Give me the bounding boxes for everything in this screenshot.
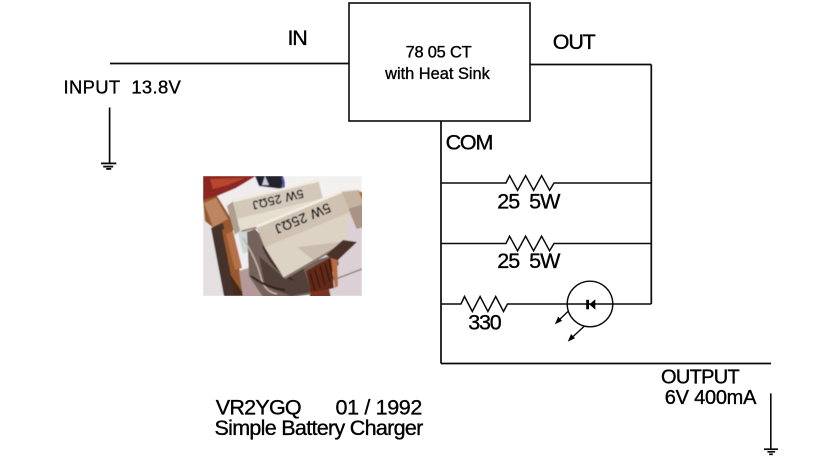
LED D1 triangle [589,299,595,309]
svg-text:with Heat Sink: with Heat Sink [384,65,491,83]
svg-text:IN: IN [288,26,307,50]
svg-text:OUTPUT: OUTPUT [661,367,740,389]
svg-text:330: 330 [468,311,502,335]
resistor R3 330 [441,297,651,312]
svg-text:25 5W: 25 5W [497,249,561,273]
LED D1 light arrow 1 [556,311,569,323]
rear resistor in photo [226,179,327,235]
dark shadow and blocks under resistors [326,240,357,261]
wire out [530,64,651,66]
front resistor in photo [256,182,385,282]
svg-text:INPUT 13.8V: INPUT 13.8V [64,76,182,97]
regulator U1 box 78 05 CT [349,3,530,121]
ground GND1 [101,108,116,169]
LED D1 cathode bar [586,300,589,310]
svg-text:6V 400mA: 6V 400mA [665,387,757,409]
LED D1 circle [567,281,613,327]
photo: 25 ohm 5W ceramic resistors [203,176,384,298]
svg-text:Simple Battery Charger: Simple Battery Charger [215,416,424,440]
resistor R2 25 5W [441,236,651,251]
wire input [110,63,349,65]
wire right bus [650,65,652,305]
LED D1 light arrow 2 [569,326,585,341]
svg-text:OUT: OUT [553,30,596,54]
wire COM bus [440,121,442,364]
ground GND2 [764,393,778,454]
wire output bottom [441,363,771,365]
muddy shadow mass under resistors [247,229,339,297]
resistor R1 25 5W [441,176,651,191]
svg-text:COM: COM [446,130,493,154]
svg-text:25 5W: 25 5W [497,190,561,214]
svg-text:78 05 CT: 78 05 CT [406,43,472,61]
